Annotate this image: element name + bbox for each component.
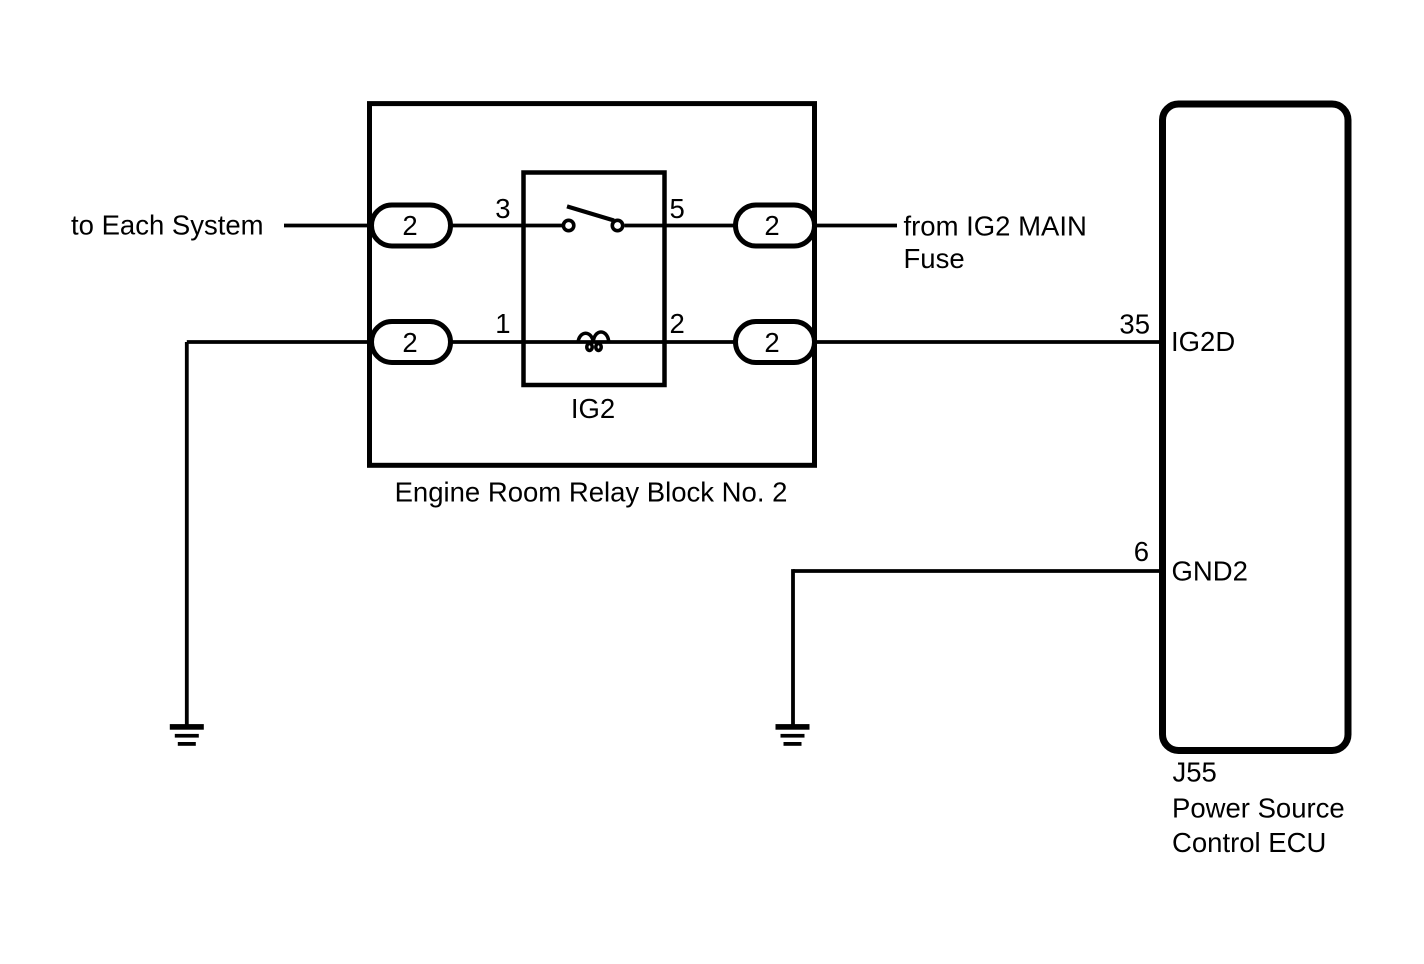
switch contact left circle	[563, 220, 573, 230]
wire bottom row (coil line to ECU pin 35)	[187, 340, 1160, 344]
svg-text:5: 5	[670, 193, 685, 224]
connector terminal top-right "2"	[736, 205, 815, 246]
ECU box J55	[1163, 104, 1349, 751]
wire GND2 horizontal from ECU pin 6	[793, 569, 1160, 573]
svg-text:6: 6	[1134, 536, 1149, 567]
connector terminal bottom-right "2"	[736, 322, 815, 363]
svg-text:2: 2	[764, 327, 779, 358]
switch blade	[567, 206, 614, 220]
connector terminal top-left "2"	[372, 205, 451, 246]
svg-text:IG2D: IG2D	[1171, 326, 1235, 357]
wire GND2 vertical to ground	[791, 569, 795, 724]
svg-text:Control ECU: Control ECU	[1172, 827, 1326, 858]
svg-text:1: 1	[495, 308, 510, 339]
svg-text:Engine Room Relay Block No. 2: Engine Room Relay Block No. 2	[395, 477, 788, 508]
connector terminal bottom-left "2"	[372, 322, 451, 363]
svg-text:2: 2	[670, 308, 685, 339]
svg-text:Power Source: Power Source	[1172, 793, 1345, 824]
ground symbol right	[776, 724, 810, 746]
svg-text:J55: J55	[1173, 757, 1217, 788]
svg-text:IG2: IG2	[571, 393, 615, 424]
wire top-right lead (switch to from IG2 MAIN Fuse)	[625, 224, 898, 228]
relay coil	[578, 332, 609, 350]
svg-text:3: 3	[495, 193, 510, 224]
switch contact right circle	[612, 220, 622, 230]
svg-text:35: 35	[1119, 309, 1150, 340]
svg-text:2: 2	[402, 210, 417, 241]
svg-text:2: 2	[402, 327, 417, 358]
svg-text:2: 2	[764, 210, 779, 241]
relay IG2 inner box	[524, 173, 665, 386]
svg-text:GND2: GND2	[1172, 556, 1248, 587]
svg-text:from IG2 MAIN: from IG2 MAIN	[904, 211, 1087, 242]
svg-text:Fuse: Fuse	[904, 243, 965, 274]
ground symbol left	[170, 724, 204, 746]
wire top-left lead (to Each System to switch)	[284, 224, 562, 228]
svg-text:to Each System: to Each System	[71, 210, 264, 241]
relay block outer box (Engine Room Relay Block No. 2)	[370, 104, 815, 466]
wire left vertical to ground	[185, 342, 189, 725]
